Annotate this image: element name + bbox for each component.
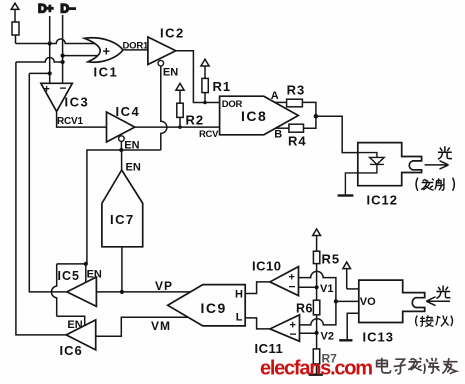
resistor R6 xyxy=(313,300,319,315)
wire R6 to V2 xyxy=(316,315,318,349)
svg-text:VP: VP xyxy=(155,279,173,293)
wire B to R4 xyxy=(275,127,289,129)
svg-text:EN: EN xyxy=(126,161,141,173)
wire IC7 bottom to VP line xyxy=(121,247,123,292)
wire EN drop IC5 xyxy=(85,264,87,283)
svg-text:IC10: IC10 xyxy=(252,259,281,274)
svg-text:R3: R3 xyxy=(287,82,306,97)
resistor R1 xyxy=(202,78,208,92)
buffer IC2 xyxy=(148,37,176,65)
wire R5 to V1 xyxy=(316,264,318,301)
wire IC6 input VM jog xyxy=(96,317,188,336)
wire IC8 node to IC12 xyxy=(316,116,358,152)
svg-text:D−: D− xyxy=(60,1,75,15)
svg-text:R5: R5 xyxy=(322,251,341,266)
buffer IC5 xyxy=(67,277,97,306)
power arrow R1 xyxy=(201,59,209,78)
node dot V2 xyxy=(315,331,319,335)
wire EN to IC7 xyxy=(121,150,123,170)
wire row3 D+ tap xyxy=(29,72,49,74)
svg-text:VO: VO xyxy=(360,296,376,308)
label 光 (receive) xyxy=(436,286,450,299)
svg-text:IC11: IC11 xyxy=(255,341,284,356)
comparator IC10 xyxy=(270,267,299,296)
or-gate IC1 xyxy=(85,38,123,62)
wire IC5 input VP xyxy=(96,291,190,293)
power arrow top-left xyxy=(11,3,19,22)
svg-text:−: − xyxy=(289,280,296,294)
node dot VO junction xyxy=(334,299,338,303)
node dot R2 junction xyxy=(178,125,182,129)
line driver IC9 xyxy=(168,285,246,326)
wire H to IC10 output xyxy=(245,282,270,294)
power arrow IC13 xyxy=(343,262,351,289)
svg-text:R1: R1 xyxy=(213,79,232,94)
svg-text:VM: VM xyxy=(151,319,171,333)
LED inside IC12 xyxy=(345,153,384,196)
arrow light in xyxy=(426,297,450,306)
optocoupler IC12 xyxy=(358,143,422,186)
op-amp IC3 xyxy=(41,83,72,111)
node dot D+ row3 xyxy=(48,71,52,75)
wire D+ vertical xyxy=(49,16,51,83)
svg-text:V1: V1 xyxy=(320,283,333,295)
wire D- to OR gate input B xyxy=(63,55,97,57)
node dot R1 junction xyxy=(203,101,207,105)
wire IC11 plus input (hop) xyxy=(300,301,336,325)
wire EN bus xyxy=(87,150,161,264)
wire A to R3 xyxy=(275,101,287,103)
svg-text:−: − xyxy=(60,81,67,95)
svg-text:RCV1: RCV1 xyxy=(57,116,84,127)
svg-text:IC5: IC5 xyxy=(58,269,80,283)
wire left vertical from D- to IC6 output xyxy=(16,62,66,335)
svg-text:R6: R6 xyxy=(296,301,313,315)
wire power to IC13 xyxy=(347,288,359,290)
node dot D- upper xyxy=(61,54,65,58)
arrow light out xyxy=(425,161,449,169)
enable bubble IC4 xyxy=(119,136,125,142)
node dot EN bus xyxy=(119,148,123,152)
node dot D+ row1 xyxy=(48,41,52,45)
svg-text:DOR: DOR xyxy=(222,99,243,110)
resistor R5 xyxy=(313,251,319,263)
comparator IC11 xyxy=(270,315,300,342)
ground IC13 xyxy=(339,313,359,340)
svg-text:EN: EN xyxy=(163,67,178,79)
wire row2 left feedback (hop over D+) xyxy=(16,58,63,63)
wire R4 to node xyxy=(304,116,316,128)
watermark 电子发烧友 xyxy=(377,358,458,374)
svg-text:IC12: IC12 xyxy=(367,192,398,207)
resistor (pull-up, unlabeled) xyxy=(12,22,19,35)
svg-text:IC9: IC9 xyxy=(201,300,227,316)
svg-text:IC13: IC13 xyxy=(363,329,394,344)
svg-text:IC2: IC2 xyxy=(160,26,185,41)
resistor R2 xyxy=(177,103,183,117)
svg-text:IC1: IC1 xyxy=(94,65,119,80)
wire row1 to OR gate input A (hop over D-) xyxy=(16,39,98,44)
svg-text:+: + xyxy=(44,83,50,95)
svg-text:RCV: RCV xyxy=(199,129,219,140)
enable bubble IC2 xyxy=(158,60,164,66)
svg-text:R2: R2 xyxy=(186,113,205,128)
resistor R4 xyxy=(289,124,304,132)
buffer IC6 xyxy=(66,320,96,350)
node dot IC7/VP xyxy=(120,290,124,294)
wire R7 to ground xyxy=(316,364,318,375)
svg-text:H: H xyxy=(235,288,243,300)
label （发射） transmit caption xyxy=(416,178,454,191)
ground IC12 xyxy=(338,194,354,196)
line receiver IC8 xyxy=(220,96,299,135)
svg-text:IC6: IC6 xyxy=(60,343,83,358)
svg-text:B: B xyxy=(274,129,282,141)
node dot R3/R4 xyxy=(314,114,319,119)
svg-text:IC3: IC3 xyxy=(65,95,90,110)
ground R7 xyxy=(309,374,323,376)
wire D- vertical xyxy=(62,15,64,83)
svg-text:elecfans.com: elecfans.com xyxy=(260,358,372,380)
wire IC10 plus input (hop) xyxy=(299,271,336,301)
power arrow R2 xyxy=(176,83,184,103)
svg-text:IC8: IC8 xyxy=(241,108,267,124)
wire IC10 minus input to V1 xyxy=(299,286,317,288)
node dot EN IC5 xyxy=(84,262,88,266)
svg-text:L: L xyxy=(236,312,243,324)
svg-text:IC4: IC4 xyxy=(116,104,141,119)
wire IC1 output DOR1 to IC2 xyxy=(122,49,147,51)
wire IC11 minus input to V2 xyxy=(300,332,317,334)
wire R3 to node xyxy=(302,102,316,116)
wire IC2 EN down to EN bus (hop over IC4 output) xyxy=(161,66,167,150)
optical receiver IC13 xyxy=(359,280,425,322)
wire VO to IC13 xyxy=(336,300,359,302)
svg-text:R4: R4 xyxy=(288,133,307,148)
svg-text:−: − xyxy=(290,327,297,341)
resistor R3 xyxy=(287,99,303,107)
svg-text:DOR1: DOR1 xyxy=(123,40,150,51)
svg-text:A: A xyxy=(271,90,279,102)
power arrow R5 xyxy=(313,229,321,251)
wire left vertical 2 from D+ to IC5 output xyxy=(29,73,67,292)
label （接收） receive caption xyxy=(416,315,453,326)
svg-text:+: + xyxy=(103,44,111,59)
wire IC2 output to DOR of IC8 xyxy=(176,51,220,103)
label 光 (transmit) xyxy=(438,146,452,159)
wire resistor to node row1 xyxy=(15,35,17,44)
node dot D- row2 xyxy=(61,60,65,64)
wire EN chain to IC5/IC6 xyxy=(51,264,86,326)
svg-text:V2: V2 xyxy=(321,330,334,342)
wire IC3 output RCV1 to IC4 xyxy=(57,112,107,128)
svg-text:IC7: IC7 xyxy=(110,212,135,227)
buffer IC4 xyxy=(107,112,135,142)
wire IC4 output to RCV of IC8 xyxy=(135,126,220,128)
wire IC4 EN to bus xyxy=(120,141,122,150)
monostable IC7 xyxy=(102,170,143,247)
node dot V1 xyxy=(315,285,319,289)
svg-text:D+: D+ xyxy=(38,1,53,15)
resistor R7 xyxy=(313,349,319,364)
wire L to IC11 output xyxy=(245,318,270,329)
